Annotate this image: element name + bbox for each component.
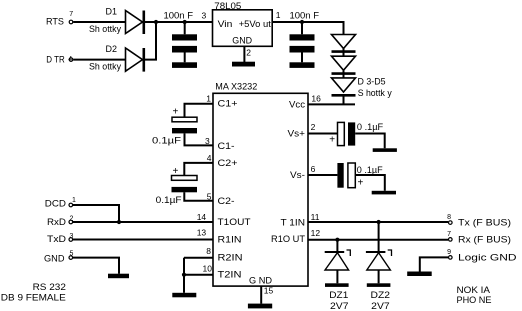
wire DB9 GND to ground — [73, 258, 119, 274]
pin number 12 (R1OUT) — [311, 228, 321, 238]
label NOKIA — [457, 285, 491, 296]
svg-text:2V7: 2V7 — [371, 301, 390, 311]
wire D1 cathode to +V node — [145, 21, 213, 23]
pin label GND (78L05) — [232, 36, 252, 47]
pin number 11 (T1IN) — [311, 212, 320, 222]
pin label C2- — [218, 196, 235, 207]
pin number 8 (R2IN) — [206, 246, 211, 256]
svg-text:C2-: C2- — [218, 196, 235, 207]
capacitor C3 0.1uF electrolytic (Vs+) — [338, 122, 356, 145]
svg-text:D TR: D TR — [46, 54, 65, 65]
terminal Rx FBUS (pin 7) — [449, 238, 453, 242]
svg-text:13: 13 — [197, 228, 207, 238]
value label 100nF (output) — [290, 11, 320, 22]
label DZ1 — [329, 290, 348, 301]
svg-text:12: 12 — [311, 228, 321, 238]
svg-text:DZ2: DZ2 — [371, 290, 391, 301]
svg-text:Logic GND: Logic GND — [458, 252, 517, 263]
terminal RxD (DB9 pin 2) — [69, 220, 73, 224]
svg-text:1: 1 — [72, 197, 76, 204]
svg-text:C1-: C1- — [218, 141, 235, 152]
pin number 2 (78L05 GND) — [246, 47, 251, 57]
pin label Vcc — [289, 99, 305, 110]
ground (output 100nF) — [290, 62, 315, 68]
pin number 3 (TxD) — [70, 233, 74, 240]
svg-text:+: + — [173, 166, 179, 177]
pin number 8 (Tx) — [447, 214, 451, 221]
capacitor 100nF (output) — [290, 22, 315, 62]
terminal GND (DB9 pin 5) — [69, 256, 73, 260]
pin number 7 (Rx) — [447, 231, 451, 238]
svg-text:100n F: 100n F — [164, 11, 194, 22]
svg-text:C1+: C1+ — [218, 99, 238, 110]
pin number 4 (C2+) — [207, 153, 212, 163]
pin number 15 (GND) — [264, 286, 274, 296]
wire DZ2 anode to ground — [378, 270, 380, 283]
svg-text:7: 7 — [69, 11, 73, 18]
wire RTS to D1 anode — [73, 21, 125, 23]
svg-text:Vin: Vin — [218, 19, 233, 30]
wire +5V output to diode chain — [272, 22, 343, 35]
svg-text:T 1IN: T 1IN — [281, 217, 306, 228]
diode D1 — [126, 11, 144, 35]
value label 0.1uF (C2) — [156, 195, 182, 206]
svg-text:G ND: G ND — [249, 275, 272, 286]
pin number 1 (78L05 out) — [276, 10, 281, 20]
label RxD — [47, 217, 66, 228]
wire Vs+ pin 2 to capacitor C3 — [308, 133, 338, 135]
svg-text:Vs-: Vs- — [290, 170, 305, 181]
wire C1+ pin 1 to capacitor C1 — [185, 104, 214, 118]
wire R2IN pin 8 tie — [184, 257, 213, 259]
ground (C3) — [373, 148, 397, 152]
pin number 16 (Vcc) — [311, 94, 321, 104]
svg-text:4: 4 — [68, 56, 72, 63]
svg-text:0 .1µF: 0 .1µF — [357, 122, 383, 133]
svg-text:DZ1: DZ1 — [329, 290, 348, 301]
svg-text:GND: GND — [44, 253, 65, 264]
label Shottky (D1) — [89, 24, 121, 34]
pin number 2 (Vs+) — [311, 122, 316, 132]
svg-text:6: 6 — [311, 164, 316, 174]
svg-text:15: 15 — [264, 286, 274, 296]
pin label +5V out — [239, 19, 272, 30]
wire TxD to R1IN pin 13 — [73, 239, 213, 241]
ground (DZ2) — [367, 283, 391, 287]
pin label Vs+ — [288, 128, 306, 139]
zener diode DZ2 — [366, 250, 392, 270]
terminal RTS (DB9 pin 7) — [69, 20, 73, 24]
capacitor 100nF (input) — [172, 22, 197, 62]
svg-text:10: 10 — [203, 264, 213, 274]
pin label C2+ — [218, 158, 238, 169]
label Rx (FBUS) — [458, 235, 511, 246]
svg-text:2: 2 — [246, 47, 251, 57]
svg-text:3: 3 — [205, 136, 210, 146]
svg-text:D 3-D5: D 3-D5 — [358, 76, 386, 87]
svg-text:Sh ottky: Sh ottky — [89, 24, 121, 34]
pin label R2IN — [218, 252, 243, 263]
svg-text:R2IN: R2IN — [218, 252, 243, 263]
ground (MAX3232 GND) — [248, 304, 272, 309]
svg-text:RxD: RxD — [47, 217, 66, 228]
svg-text:Tx (F BUS): Tx (F BUS) — [458, 217, 511, 228]
ground (R2IN/T2IN) — [172, 293, 196, 298]
label Shottky (D2) — [89, 61, 121, 71]
svg-text:T2IN: T2IN — [218, 269, 242, 280]
svg-text:C2+: C2+ — [218, 158, 238, 169]
wire Vs- pin 6 to capacitor C4 — [308, 174, 337, 176]
pin number 3 (78L05 Vin) — [202, 11, 207, 21]
value label 0.1uF (C4) — [357, 165, 383, 176]
svg-text:0.1µF: 0.1µF — [152, 136, 181, 147]
label DB 9 FEMALE — [1, 292, 66, 303]
svg-text:TxD: TxD — [47, 234, 66, 245]
polarity + (C1) — [173, 107, 179, 118]
svg-text:9: 9 — [447, 249, 451, 256]
label RTS — [46, 16, 64, 27]
svg-text:8: 8 — [447, 214, 451, 221]
svg-text:14: 14 — [197, 212, 207, 222]
junction D1/D2 outputs — [154, 20, 158, 24]
svg-text:+: + — [358, 177, 364, 188]
wire capacitor C2 to C2- pin 5 — [184, 192, 213, 201]
svg-text:Vcc: Vcc — [289, 99, 305, 110]
pin number 5 (DB9 GND) — [70, 251, 74, 258]
pin number 14 (T1OUT) — [197, 212, 207, 222]
svg-text:3: 3 — [70, 233, 74, 240]
pin number 2 (RxD) — [70, 216, 74, 223]
terminal DCD (DB9 pin 1) — [69, 203, 73, 207]
polarity + (C3) — [329, 135, 335, 146]
svg-text:5: 5 — [207, 192, 212, 202]
svg-text:D2: D2 — [106, 44, 118, 55]
junction R2IN/T2IN — [182, 273, 186, 277]
ground (DB9 GND) — [108, 274, 129, 279]
ground (input 100nF) — [172, 62, 197, 68]
svg-text:R1O UT: R1O UT — [271, 234, 305, 245]
value label 100nF (input) — [164, 11, 194, 22]
pin number 5 (C2-) — [207, 192, 212, 202]
wire Logic GND to ground — [420, 257, 448, 271]
svg-text:+5Vo ut: +5Vo ut — [239, 19, 272, 30]
svg-text:100n F: 100n F — [290, 11, 320, 22]
pin label GND (MAX3232) — [249, 275, 272, 286]
label DCD — [45, 198, 66, 209]
diode D2 — [126, 48, 144, 72]
junction R1OUT/DZ1 — [335, 238, 339, 242]
wire T2IN pin 10 tie — [184, 274, 213, 276]
pin label C1- — [218, 141, 235, 152]
terminal Tx FBUS (pin 8) — [449, 221, 453, 225]
svg-text:RS 232: RS 232 — [33, 282, 66, 293]
wire T1IN pin 11 to Tx terminal — [308, 221, 448, 223]
svg-text:+: + — [329, 135, 335, 146]
svg-text:7: 7 — [447, 231, 451, 238]
label DZ2 — [371, 290, 391, 301]
ground (C4) — [372, 191, 396, 195]
pin number 9 (Logic GND) — [447, 249, 451, 256]
pin label C1+ — [218, 99, 238, 110]
pin label R1OUT — [271, 234, 305, 245]
wire RxD to T1OUT pin 14 — [73, 221, 213, 223]
svg-text:PHO NE: PHO NE — [457, 295, 492, 306]
label Shottky (D3-D5) — [358, 88, 392, 99]
pin label Vin — [218, 19, 233, 30]
wire capacitor C4 to ground — [355, 175, 385, 191]
pin label T1OUT — [218, 217, 251, 228]
svg-text:2V7: 2V7 — [330, 301, 349, 311]
label RS 232 — [33, 282, 66, 293]
junction T1IN/DZ2 — [377, 220, 381, 224]
svg-text:1: 1 — [206, 93, 211, 103]
label D3-D5 — [358, 76, 386, 87]
wire DTR to D2 anode — [73, 59, 125, 61]
svg-text:MA X3232: MA X3232 — [215, 82, 257, 93]
value label 2V7 (DZ2) — [371, 301, 390, 311]
pin number 3 (C1-) — [205, 136, 210, 146]
label PHONE — [457, 295, 492, 306]
svg-text:RTS: RTS — [46, 16, 64, 27]
wire R1OUT net to DZ1 cathode — [336, 240, 338, 253]
wire GND pin 15 to ground — [260, 286, 262, 304]
terminal DTR (DB9 pin 4) — [69, 58, 73, 62]
polarity + (C2) — [173, 166, 179, 177]
pin number 13 (R1IN) — [197, 228, 207, 238]
pin number 1 (C1+) — [206, 93, 211, 103]
ground (78L05) — [232, 62, 255, 67]
capacitor C4 0.1uF electrolytic (Vs-) — [337, 163, 355, 188]
svg-text:0.1µF: 0.1µF — [156, 195, 182, 206]
wire R1OUT pin 12 to Rx terminal — [308, 239, 448, 241]
svg-text:DCD: DCD — [45, 198, 66, 209]
wire T1IN net to DZ2 cathode — [378, 222, 380, 253]
svg-text:3: 3 — [202, 11, 207, 21]
capacitor C1 0.1uF electrolytic — [172, 117, 197, 133]
wire 78L05 GND pin 2 to ground — [243, 46, 245, 62]
svg-text:Vs+: Vs+ — [288, 128, 306, 139]
svg-text:2: 2 — [70, 216, 74, 223]
wire D5 cathode to Vcc pin 16 — [343, 95, 345, 104]
junction DCD/RxD — [117, 220, 121, 224]
pin label Vs- — [290, 170, 305, 181]
terminal TxD (DB9 pin 3) — [69, 238, 73, 242]
svg-text:11: 11 — [311, 212, 320, 222]
label Logic GND — [458, 252, 517, 263]
svg-text:T1OUT: T1OUT — [218, 217, 251, 228]
wire R2IN/T2IN to ground — [183, 258, 185, 293]
ground (Logic GND) — [407, 272, 432, 277]
pin number 6 (Vs-) — [311, 164, 316, 174]
svg-text:S hottk y: S hottk y — [358, 88, 392, 99]
label Tx (FBUS) — [458, 217, 511, 228]
ground (DZ1) — [325, 283, 349, 287]
svg-text:R1IN: R1IN — [218, 234, 242, 245]
pin label T1IN — [281, 217, 306, 228]
svg-text:2: 2 — [311, 122, 316, 132]
wire D2 cathode up to +V node — [145, 22, 156, 60]
label GND (DB9) — [44, 253, 65, 264]
junction at input 100nF — [183, 20, 187, 24]
label D1 — [106, 6, 118, 17]
label D2 — [106, 44, 118, 55]
junction at output 100nF — [300, 20, 304, 24]
diode D3 — [332, 35, 356, 57]
wire C2+ pin 4 to capacitor C2 — [184, 163, 213, 176]
svg-text:0 .1µF: 0 .1µF — [357, 165, 383, 176]
IC U1 MAX3232 body — [213, 93, 308, 286]
label MAX3232 — [215, 82, 257, 93]
svg-text:1: 1 — [276, 10, 281, 20]
regulator U2 78L05 body — [213, 10, 273, 47]
zener diode DZ1 — [325, 250, 351, 270]
label DTR — [46, 54, 65, 65]
svg-text:D1: D1 — [106, 6, 118, 17]
wire DCD to RxD net — [73, 205, 119, 222]
svg-text:+: + — [173, 107, 179, 118]
wire DZ1 anode to ground — [336, 270, 338, 283]
label 78L05 — [214, 1, 241, 12]
pin number 10 (T2IN) — [203, 264, 213, 274]
svg-text:Sh ottky: Sh ottky — [89, 61, 121, 71]
svg-text:GND: GND — [232, 36, 252, 47]
wire Vcc pin 16 stub — [308, 103, 355, 105]
wire capacitor C3 to ground — [355, 134, 385, 149]
terminal Logic GND (pin 9) — [449, 256, 453, 260]
svg-text:DB 9 FEMALE: DB 9 FEMALE — [1, 292, 66, 303]
value label 0.1uF (C1) — [152, 136, 181, 147]
capacitor C2 0.1uF electrolytic — [172, 176, 198, 193]
svg-text:Rx (F BUS): Rx (F BUS) — [458, 235, 511, 246]
diode D5 — [332, 78, 356, 95]
value label 2V7 (DZ1) — [330, 301, 349, 311]
svg-text:16: 16 — [311, 94, 321, 104]
svg-text:5: 5 — [70, 251, 74, 258]
pin number 4 (DTR) — [68, 56, 72, 63]
pin number 7 (RTS) — [69, 11, 73, 18]
pin label T2IN — [218, 269, 242, 280]
label TxD — [47, 234, 66, 245]
svg-text:4: 4 — [207, 153, 212, 163]
diode D4 — [332, 56, 356, 78]
svg-text:78L05: 78L05 — [214, 1, 241, 12]
polarity + (C4) — [358, 177, 364, 188]
pin label R1IN — [218, 234, 242, 245]
wire capacitor C1 to C1- pin 3 — [185, 133, 214, 145]
pin number 1 (DCD) — [72, 197, 76, 204]
svg-text:8: 8 — [206, 246, 211, 256]
value label 0.1uF (C3) — [357, 122, 383, 133]
